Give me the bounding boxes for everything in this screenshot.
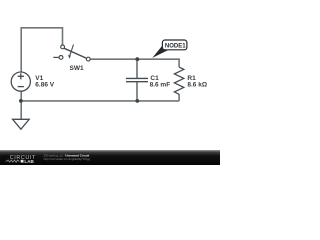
SW1 common terminal T2 (right) bbox=[86, 57, 90, 61]
svg-text:8.6 kΩ: 8.6 kΩ bbox=[187, 82, 207, 89]
ground bbox=[13, 119, 30, 129]
wire right rail from switch to R1 corner bbox=[90, 59, 179, 67]
junction dot at C1 bottom bbox=[135, 99, 139, 103]
wire R1 bottom lead to rail bbox=[178, 94, 180, 101]
voltage source V1 bbox=[11, 72, 30, 91]
svg-text:SW1: SW1 bbox=[70, 65, 84, 72]
wire V1 bottom to junction bbox=[20, 91, 22, 101]
wire top rail horizontal bbox=[21, 27, 62, 29]
footer bar bbox=[0, 150, 220, 165]
SW1 lever bbox=[64, 48, 87, 58]
SW1 throw terminal T1 (top) bbox=[61, 45, 65, 49]
SW1 open throw stub lead bbox=[53, 56, 59, 58]
svg-text:http://circuitlab.com/cgkE3fq7: http://circuitlab.com/cgkE3fq7zf9gg bbox=[44, 157, 91, 161]
switch SW1 bbox=[53, 45, 90, 61]
wire bottom rail bbox=[21, 100, 179, 102]
svg-text:8.6 mF: 8.6 mF bbox=[150, 82, 171, 89]
wire left rail vertical to V1 top bbox=[20, 27, 22, 72]
SW1 actuator arrow bbox=[70, 45, 74, 56]
svg-text:6.86 V: 6.86 V bbox=[35, 82, 54, 89]
junction dot at C1 top bbox=[135, 57, 139, 61]
node NODE1 flag box bbox=[162, 40, 187, 50]
resistor R1 bbox=[174, 67, 183, 94]
wire switch feed vertical bbox=[62, 27, 64, 45]
footer CircuitLab logo square bbox=[21, 160, 24, 163]
footer CircuitLab logo resistor zigzag bbox=[6, 160, 20, 162]
svg-text:NODE1: NODE1 bbox=[165, 43, 186, 49]
capacitor C1 bbox=[126, 59, 148, 101]
SW1 throw terminal T3 (left, open) bbox=[59, 56, 63, 60]
svg-text:LAB: LAB bbox=[24, 159, 34, 164]
junction dot at V1 bottom / bottom rail bbox=[19, 99, 23, 103]
wire ground stem bbox=[20, 101, 22, 119]
node NODE1 flag pointer bbox=[152, 45, 169, 58]
